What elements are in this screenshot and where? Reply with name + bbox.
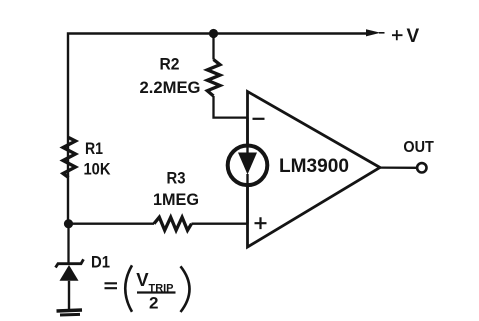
output terminal circle: [417, 163, 426, 172]
minus input sign: [253, 118, 265, 120]
ground: [57, 310, 83, 315]
svg-text:10K: 10K: [84, 160, 112, 179]
wire: node to D1: [67, 224, 69, 263]
svg-text:R2: R2: [160, 55, 180, 74]
+V arrow: [366, 29, 385, 36]
svg-text:V: V: [407, 26, 420, 47]
plus input sign: [255, 217, 267, 229]
node: bottom junction dot: [64, 219, 73, 228]
op-amp U1 triangle: [248, 92, 381, 248]
wire: R3 to non-inverting input: [192, 223, 248, 225]
svg-text:1MEG: 1MEG: [153, 190, 199, 209]
svg-text:2: 2: [149, 294, 158, 313]
wire: top +V rail: [68, 34, 367, 225]
current source inside LM3900: [228, 118, 268, 224]
formula = (V_TRIP / 2): [105, 265, 190, 312]
wire: output lead: [380, 166, 417, 168]
svg-text:V: V: [136, 269, 149, 290]
diode D1 (zener): [56, 259, 84, 309]
+V label: [392, 26, 420, 47]
resistor R3: [154, 217, 192, 230]
svg-text:D1: D1: [91, 253, 110, 272]
wire: R2 top lead: [212, 34, 214, 60]
svg-text:R3: R3: [167, 169, 186, 188]
wire: bottom rail to R3: [68, 223, 154, 225]
resistor R2: [207, 60, 220, 97]
svg-text:2.2MEG: 2.2MEG: [140, 78, 201, 97]
wire: R2 bottom lead to inverting input: [214, 96, 248, 118]
svg-text:OUT: OUT: [403, 139, 434, 156]
svg-text:LM3900: LM3900: [279, 156, 349, 177]
junction dot: [209, 29, 218, 38]
resistor R1: [63, 138, 76, 178]
svg-text:R1: R1: [85, 139, 103, 158]
